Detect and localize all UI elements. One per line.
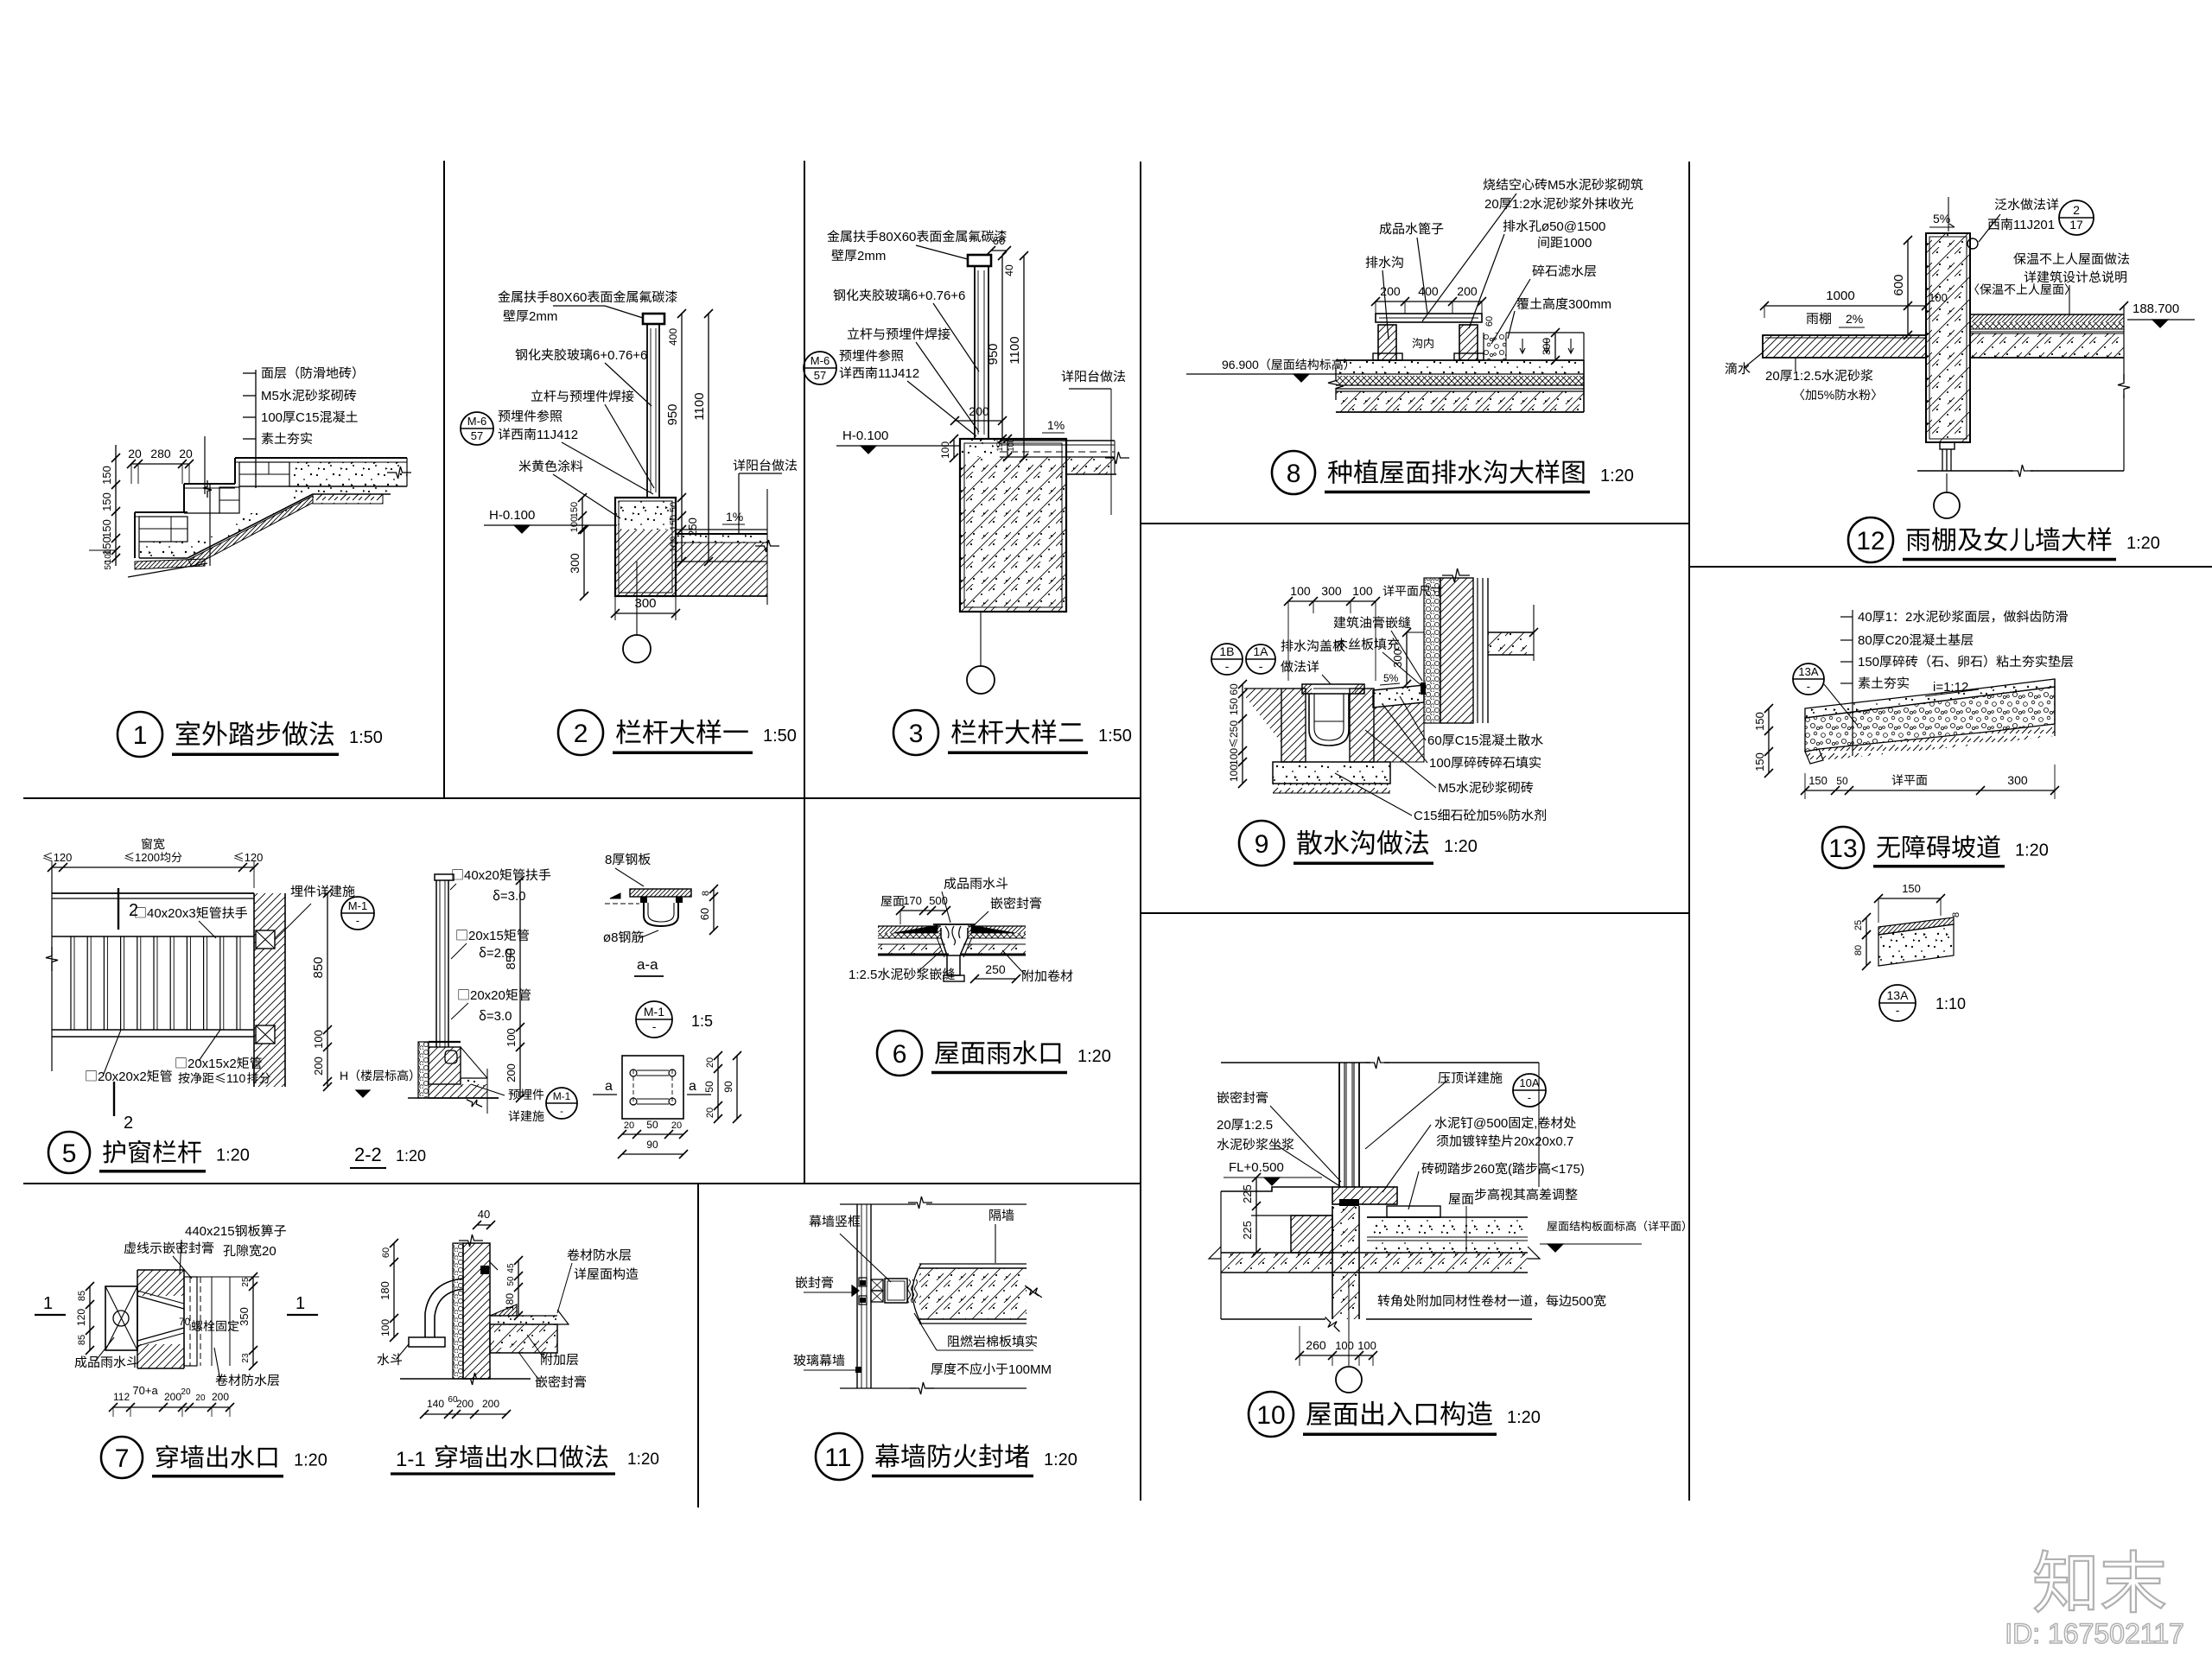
svg-text:8: 8 bbox=[1951, 912, 1961, 917]
svg-text:20: 20 bbox=[181, 1387, 191, 1397]
svg-text:20: 20 bbox=[1484, 197, 1499, 212]
svg-text:200: 200 bbox=[212, 1391, 229, 1403]
svg-text:100: 100 bbox=[1228, 748, 1240, 765]
svg-text:57: 57 bbox=[814, 369, 826, 382]
svg-text:150: 150 bbox=[100, 492, 113, 511]
svg-text:150: 150 bbox=[1753, 752, 1766, 771]
svg-text:11J412: 11J412 bbox=[878, 366, 919, 381]
svg-text:10: 10 bbox=[1256, 1401, 1285, 1430]
svg-text:FL+0.500: FL+0.500 bbox=[1229, 1160, 1284, 1175]
svg-text:1: 1 bbox=[133, 721, 148, 750]
svg-text:250: 250 bbox=[686, 517, 699, 536]
svg-text:2: 2 bbox=[129, 901, 138, 920]
svg-text:50: 50 bbox=[1836, 775, 1848, 787]
svg-text:260: 260 bbox=[1306, 1338, 1326, 1352]
svg-text:1:20: 1:20 bbox=[294, 1451, 327, 1470]
svg-text:1000: 1000 bbox=[1563, 236, 1592, 251]
svg-text:1:20: 1:20 bbox=[627, 1450, 659, 1469]
svg-text:M-1: M-1 bbox=[348, 899, 367, 912]
svg-text:180: 180 bbox=[504, 1293, 516, 1311]
svg-text:11J201: 11J201 bbox=[2013, 218, 2055, 232]
svg-text:25: 25 bbox=[1853, 920, 1864, 930]
svg-text:2: 2 bbox=[2073, 203, 2080, 217]
svg-text:60: 60 bbox=[1484, 316, 1495, 327]
svg-text:120: 120 bbox=[75, 1309, 87, 1326]
svg-text:-: - bbox=[1807, 680, 1810, 693]
svg-text:1:20: 1:20 bbox=[1600, 467, 1634, 486]
svg-text:H-0.100: H-0.100 bbox=[842, 428, 888, 443]
svg-text:1: 1 bbox=[43, 1294, 53, 1313]
svg-text:1:20: 1:20 bbox=[1444, 837, 1478, 856]
svg-text:100: 100 bbox=[505, 1028, 518, 1047]
svg-text:1:20: 1:20 bbox=[2126, 534, 2160, 553]
svg-text:96.900: 96.900 bbox=[1222, 358, 1259, 371]
svg-text:85: 85 bbox=[77, 1335, 87, 1345]
svg-text:225: 225 bbox=[1241, 1184, 1254, 1203]
svg-text:C15: C15 bbox=[1414, 809, 1438, 823]
svg-text:,: , bbox=[1534, 1116, 1537, 1131]
svg-text:5%: 5% bbox=[1490, 809, 1509, 823]
svg-text:2-2: 2-2 bbox=[354, 1144, 382, 1165]
svg-text:17: 17 bbox=[2069, 218, 2083, 232]
svg-text:70+a: 70+a bbox=[132, 1384, 158, 1397]
svg-text:150: 150 bbox=[569, 502, 580, 517]
svg-text:40: 40 bbox=[478, 1208, 490, 1221]
svg-text:40x20x3: 40x20x3 bbox=[147, 906, 196, 921]
svg-text:-: - bbox=[652, 1019, 657, 1033]
svg-text:150: 150 bbox=[1753, 712, 1766, 731]
svg-text:1:20: 1:20 bbox=[1507, 1408, 1541, 1427]
svg-text:=3.0: =3.0 bbox=[500, 889, 526, 904]
svg-text:100: 100 bbox=[939, 441, 951, 459]
svg-text:100: 100 bbox=[1335, 1339, 1354, 1352]
svg-text:57: 57 bbox=[471, 429, 483, 442]
svg-text:23: 23 bbox=[241, 1353, 251, 1363]
svg-text:20x20: 20x20 bbox=[470, 988, 505, 1003]
svg-text:M-1: M-1 bbox=[644, 1005, 664, 1019]
svg-text:C15: C15 bbox=[1455, 733, 1479, 748]
svg-text:1%: 1% bbox=[726, 510, 743, 524]
svg-text:5: 5 bbox=[62, 1139, 77, 1168]
svg-text:<175): <175) bbox=[1551, 1162, 1585, 1177]
svg-text:50: 50 bbox=[669, 502, 679, 512]
svg-text:8: 8 bbox=[1287, 460, 1301, 488]
svg-text:5%: 5% bbox=[1817, 388, 1834, 402]
svg-text:100: 100 bbox=[669, 536, 679, 552]
svg-text:1:50: 1:50 bbox=[1098, 727, 1132, 746]
svg-text:8: 8 bbox=[605, 853, 612, 867]
svg-text:2: 2 bbox=[124, 1114, 133, 1133]
svg-text:1:50: 1:50 bbox=[349, 728, 383, 747]
svg-text:200: 200 bbox=[1380, 284, 1401, 298]
svg-text:100: 100 bbox=[1429, 756, 1451, 771]
svg-text:2: 2 bbox=[574, 720, 588, 748]
svg-text:150: 150 bbox=[995, 438, 1004, 451]
svg-text:85: 85 bbox=[77, 1291, 87, 1301]
svg-text:M5: M5 bbox=[1438, 781, 1456, 796]
svg-text:400: 400 bbox=[667, 328, 679, 346]
svg-text:12: 12 bbox=[1856, 527, 1885, 555]
svg-text:20: 20 bbox=[262, 1244, 276, 1259]
svg-text:6+0.76+6: 6+0.76+6 bbox=[911, 289, 965, 303]
svg-text:7: 7 bbox=[115, 1444, 130, 1473]
svg-text:1:2.5: 1:2.5 bbox=[849, 968, 877, 982]
svg-text:20: 20 bbox=[1765, 369, 1780, 384]
svg-text:90: 90 bbox=[646, 1139, 658, 1151]
svg-text:100MM: 100MM bbox=[1008, 1362, 1052, 1377]
svg-text:20: 20 bbox=[624, 1120, 634, 1131]
svg-text:188.700: 188.700 bbox=[2133, 301, 2179, 316]
svg-text:1:2: 1:2 bbox=[1512, 197, 1530, 212]
svg-text:80: 80 bbox=[1853, 945, 1864, 955]
svg-text:20x15x2: 20x15x2 bbox=[188, 1057, 237, 1071]
svg-text:a: a bbox=[605, 1079, 613, 1094]
svg-text:200: 200 bbox=[164, 1391, 181, 1403]
svg-text:H: H bbox=[340, 1069, 348, 1082]
svg-text:280: 280 bbox=[150, 447, 171, 460]
svg-text:2mm: 2mm bbox=[529, 309, 557, 324]
svg-text:600: 600 bbox=[1891, 274, 1906, 295]
svg-text:300: 300 bbox=[1541, 338, 1553, 355]
svg-text:1:20: 1:20 bbox=[396, 1147, 426, 1165]
svg-text:50: 50 bbox=[506, 1276, 516, 1286]
svg-text:M5: M5 bbox=[1548, 178, 1566, 193]
svg-text:140: 140 bbox=[427, 1398, 444, 1410]
svg-text:200: 200 bbox=[482, 1398, 499, 1410]
svg-text:11: 11 bbox=[824, 1444, 851, 1472]
svg-text:1:5: 1:5 bbox=[691, 1012, 713, 1030]
svg-text:40x20: 40x20 bbox=[464, 868, 499, 883]
svg-text:8: 8 bbox=[701, 891, 711, 896]
svg-text:112: 112 bbox=[113, 1391, 130, 1403]
svg-text:ID: 167502117: ID: 167502117 bbox=[2005, 1618, 2184, 1649]
svg-text:20: 20 bbox=[705, 1057, 715, 1068]
svg-text:300: 300 bbox=[2007, 773, 2028, 787]
svg-text:-: - bbox=[356, 914, 359, 927]
svg-text:@500: @500 bbox=[1473, 1116, 1508, 1131]
svg-text:100: 100 bbox=[261, 410, 283, 425]
svg-text:80: 80 bbox=[1858, 633, 1872, 648]
svg-text:40: 40 bbox=[1858, 610, 1872, 625]
svg-text:100: 100 bbox=[1352, 584, 1373, 598]
svg-text:1000: 1000 bbox=[1826, 289, 1854, 303]
svg-text:90: 90 bbox=[722, 1081, 734, 1093]
svg-text:5%: 5% bbox=[1383, 672, 1399, 684]
svg-text:250: 250 bbox=[985, 962, 1006, 976]
svg-text:100: 100 bbox=[569, 517, 580, 532]
svg-text:-: - bbox=[1896, 1003, 1900, 1017]
svg-text:1200: 1200 bbox=[135, 851, 160, 864]
svg-text:150: 150 bbox=[100, 519, 113, 538]
svg-text:150: 150 bbox=[1228, 698, 1240, 715]
svg-text:2: 2 bbox=[1905, 610, 1912, 625]
svg-text:260: 260 bbox=[1473, 1162, 1495, 1177]
svg-text:225: 225 bbox=[1241, 1221, 1254, 1240]
svg-text:60: 60 bbox=[1427, 733, 1442, 748]
svg-text:1A: 1A bbox=[1253, 644, 1268, 658]
svg-text:M5: M5 bbox=[261, 389, 279, 403]
svg-text:1:20: 1:20 bbox=[1077, 1047, 1111, 1066]
svg-text:1: 1 bbox=[296, 1294, 305, 1313]
svg-text:80X60: 80X60 bbox=[550, 290, 587, 305]
svg-text:100: 100 bbox=[1228, 765, 1240, 782]
svg-text:M-6: M-6 bbox=[467, 415, 486, 428]
svg-text:200: 200 bbox=[505, 1063, 518, 1082]
svg-text:950: 950 bbox=[986, 343, 1001, 365]
svg-text:20: 20 bbox=[179, 447, 193, 460]
svg-text:300: 300 bbox=[635, 596, 657, 611]
svg-text:1:2.5: 1:2.5 bbox=[1793, 369, 1821, 384]
svg-text:1100: 1100 bbox=[692, 392, 707, 420]
svg-text:9: 9 bbox=[1255, 830, 1269, 859]
svg-text:1: 1 bbox=[1885, 610, 1892, 625]
svg-text:200: 200 bbox=[312, 1057, 325, 1076]
svg-text:13: 13 bbox=[1828, 835, 1857, 863]
svg-text:850: 850 bbox=[504, 948, 518, 969]
svg-text:200: 200 bbox=[1457, 284, 1478, 298]
svg-text:50: 50 bbox=[646, 1119, 658, 1131]
svg-text:500: 500 bbox=[1572, 1294, 1593, 1309]
svg-text:a-a: a-a bbox=[637, 956, 658, 973]
svg-text:1%: 1% bbox=[1047, 418, 1065, 432]
svg-text:100: 100 bbox=[379, 1319, 391, 1336]
svg-text:20: 20 bbox=[671, 1120, 682, 1131]
svg-text:60: 60 bbox=[381, 1247, 391, 1258]
svg-text:20: 20 bbox=[195, 1393, 206, 1403]
svg-text:120: 120 bbox=[54, 851, 73, 864]
svg-text:1:2.5: 1:2.5 bbox=[1244, 1118, 1273, 1133]
svg-text:20x15: 20x15 bbox=[468, 929, 504, 943]
svg-text:150: 150 bbox=[669, 515, 679, 530]
svg-text:60: 60 bbox=[698, 908, 711, 920]
svg-text:300mm: 300mm bbox=[1568, 297, 1611, 312]
svg-text:45: 45 bbox=[506, 1263, 516, 1273]
svg-text:150: 150 bbox=[1808, 774, 1827, 787]
svg-text:25: 25 bbox=[241, 1277, 251, 1287]
svg-text:60: 60 bbox=[1228, 683, 1240, 695]
svg-text:10A: 10A bbox=[1519, 1076, 1539, 1089]
svg-text:40: 40 bbox=[1003, 264, 1015, 276]
svg-text:13A: 13A bbox=[1887, 988, 1910, 1002]
svg-text:180: 180 bbox=[378, 1281, 391, 1300]
svg-text:C15: C15 bbox=[296, 410, 320, 425]
svg-text:6: 6 bbox=[893, 1040, 907, 1069]
svg-text:1:20: 1:20 bbox=[1044, 1450, 1077, 1469]
svg-text:20: 20 bbox=[705, 1108, 715, 1118]
svg-text:1:50: 1:50 bbox=[763, 727, 797, 746]
svg-text:100: 100 bbox=[1357, 1339, 1376, 1352]
svg-text:200: 200 bbox=[969, 404, 989, 418]
svg-text:1100: 1100 bbox=[1007, 336, 1022, 364]
svg-text:400: 400 bbox=[1418, 284, 1439, 298]
svg-text:20: 20 bbox=[1217, 1118, 1231, 1133]
svg-text:100: 100 bbox=[1007, 438, 1015, 451]
svg-text:50@1500: 50@1500 bbox=[1549, 219, 1605, 234]
svg-text:11J412: 11J412 bbox=[537, 428, 578, 442]
svg-text:20x20x0.7: 20x20x0.7 bbox=[1514, 1134, 1573, 1149]
svg-text:8: 8 bbox=[611, 930, 618, 945]
svg-text:C20: C20 bbox=[1885, 633, 1910, 648]
svg-text:3: 3 bbox=[909, 720, 924, 748]
svg-text:1:20: 1:20 bbox=[2015, 841, 2049, 860]
svg-text:250: 250 bbox=[1228, 720, 1240, 738]
svg-text:300: 300 bbox=[1321, 584, 1342, 598]
svg-text:1B: 1B bbox=[1219, 644, 1234, 658]
svg-text:150: 150 bbox=[100, 466, 113, 485]
svg-text:1:20: 1:20 bbox=[216, 1146, 250, 1165]
svg-text:-: - bbox=[1259, 659, 1263, 673]
svg-text:200: 200 bbox=[456, 1398, 474, 1410]
svg-text:850: 850 bbox=[311, 956, 326, 978]
svg-text:70: 70 bbox=[179, 1316, 191, 1328]
svg-text:6+0.76+6: 6+0.76+6 bbox=[593, 348, 647, 363]
svg-text:50: 50 bbox=[104, 560, 113, 570]
svg-text:150: 150 bbox=[1858, 655, 1879, 670]
svg-text:120: 120 bbox=[245, 851, 264, 864]
svg-text:500: 500 bbox=[929, 894, 948, 907]
svg-text:110: 110 bbox=[226, 1071, 246, 1085]
svg-text:13A: 13A bbox=[1798, 665, 1818, 678]
svg-text:350: 350 bbox=[238, 1307, 251, 1326]
svg-text:H-0.100: H-0.100 bbox=[489, 508, 535, 523]
svg-text:100: 100 bbox=[312, 1030, 325, 1049]
svg-text:2%: 2% bbox=[1846, 312, 1863, 326]
svg-text:-: - bbox=[1225, 659, 1230, 673]
svg-text:50: 50 bbox=[703, 1081, 715, 1093]
svg-text:2mm: 2mm bbox=[857, 249, 886, 263]
svg-text:-: - bbox=[1528, 1091, 1531, 1104]
svg-text:440x215: 440x215 bbox=[185, 1224, 235, 1239]
svg-text:100: 100 bbox=[1929, 291, 1948, 304]
svg-text:300: 300 bbox=[568, 553, 582, 574]
svg-text:1-1: 1-1 bbox=[396, 1448, 426, 1471]
svg-text:=3.0: =3.0 bbox=[486, 1009, 512, 1024]
svg-text:20: 20 bbox=[128, 447, 142, 460]
svg-text:80X60: 80X60 bbox=[879, 230, 916, 244]
svg-text:100: 100 bbox=[1290, 584, 1311, 598]
svg-text:170: 170 bbox=[903, 894, 922, 907]
svg-text:150: 150 bbox=[1902, 882, 1921, 895]
svg-text:M-1: M-1 bbox=[553, 1090, 571, 1102]
svg-text:1:10: 1:10 bbox=[1935, 995, 1966, 1012]
svg-text:a: a bbox=[689, 1079, 696, 1094]
svg-text:5%: 5% bbox=[1933, 212, 1950, 225]
svg-text:(: ( bbox=[1508, 1162, 1512, 1177]
svg-text:950: 950 bbox=[665, 403, 680, 425]
svg-text:-: - bbox=[560, 1105, 563, 1117]
svg-text:M-6: M-6 bbox=[810, 354, 829, 367]
